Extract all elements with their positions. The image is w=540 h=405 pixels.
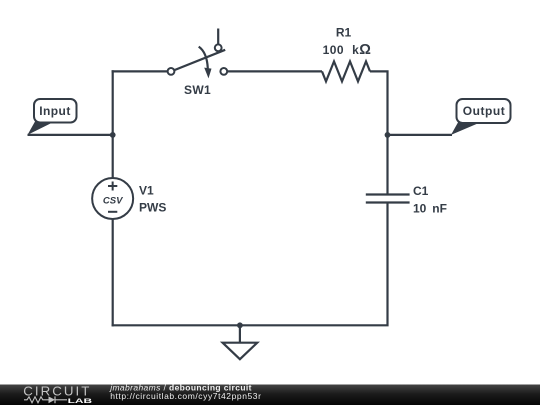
svg-text:Input: Input [39, 104, 71, 118]
svg-text:CIRCUIT: CIRCUIT [23, 384, 91, 399]
svg-text:LAB: LAB [68, 398, 93, 405]
switch SW1 [168, 29, 228, 79]
svg-text:CSV: CSV [103, 196, 123, 207]
logo diode [49, 396, 56, 403]
svg-text:http://circuitlab.com/cyy7t42p: http://circuitlab.com/cyy7t42ppn53r [110, 391, 261, 401]
wire left vertical lower [112, 219, 114, 326]
svg-text:10 nF: 10 nF [413, 202, 447, 216]
svg-text:100 kΩ: 100 kΩ [323, 42, 372, 58]
SW1 arrowhead [204, 68, 211, 79]
SW1 lever [173, 50, 226, 71]
wire output tap [388, 134, 453, 136]
Input flag [28, 99, 77, 135]
wire input tap [28, 134, 113, 136]
resistor R1 [322, 61, 370, 81]
svg-text:SW1: SW1 [184, 83, 211, 97]
node Output junction [385, 132, 391, 138]
voltage source V1 [92, 178, 133, 219]
wire capacitor to bottom-right corner [112, 203, 388, 325]
SW1 top terminal [215, 44, 222, 51]
wire left vertical upper [112, 70, 114, 178]
svg-text:C1: C1 [413, 184, 429, 198]
wire switch to resistor [227, 70, 322, 72]
wire top-left horizontal [112, 70, 168, 72]
V1 plus sign [108, 182, 117, 191]
SW1 left terminal [168, 68, 175, 75]
wire resistor to top-right corner [370, 71, 388, 194]
svg-text:PWS: PWS [139, 201, 166, 215]
node Input junction [110, 132, 116, 138]
capacitor C1 [366, 195, 410, 203]
logo resistor squiggle [24, 397, 49, 403]
svg-text:V1: V1 [139, 184, 154, 198]
SW1 top stub [217, 29, 219, 45]
SW1 action arc [199, 47, 208, 69]
ground [223, 325, 258, 359]
V1 minus sign [108, 211, 117, 213]
svg-text:Output: Output [463, 104, 506, 118]
svg-text:R1: R1 [336, 25, 352, 39]
node ground junction [237, 322, 243, 328]
Output flag [451, 99, 511, 135]
SW1 right terminal [220, 68, 227, 75]
